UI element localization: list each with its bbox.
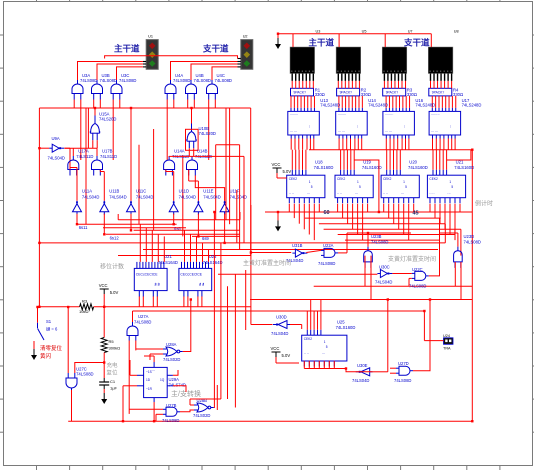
svg-text:···: ··· [322, 352, 325, 356]
svg-text:74LS20D: 74LS20D [99, 117, 116, 122]
svg-text:74LS04D: 74LS04D [203, 195, 220, 200]
svg-text:········: ········ [385, 113, 394, 117]
svg-text:1D: 1D [146, 378, 151, 382]
svg-text:74LS04D: 74LS04D [82, 195, 99, 200]
svg-text:·· ··: ·· ·· [383, 192, 388, 196]
svg-text:⋮: ⋮ [308, 124, 311, 128]
svg-text:74LS08D: 74LS08D [76, 372, 93, 377]
svg-text:1: 1 [449, 180, 451, 184]
svg-text:74LS08D: 74LS08D [194, 78, 211, 83]
svg-text:74LS08D: 74LS08D [80, 78, 97, 83]
svg-text:U11E: U11E [203, 189, 213, 194]
svg-text:74LS248D: 74LS248D [415, 103, 435, 108]
svg-text:支干道: 支干道 [202, 43, 229, 53]
svg-text:~1S: ~1S [146, 370, 152, 374]
svg-text:74LS160D: 74LS160D [454, 165, 474, 170]
svg-text:74LS08D: 74LS08D [371, 240, 388, 245]
svg-text:74LS02D: 74LS02D [163, 357, 180, 362]
svg-text:74LS248D: 74LS248D [368, 103, 388, 108]
svg-text:74LS04D: 74LS04D [352, 378, 369, 383]
svg-text:74LS164D: 74LS164D [203, 260, 223, 265]
svg-text:U20: U20 [409, 159, 417, 164]
svg-text:⋯: ⋯ [152, 368, 155, 372]
svg-text:6s11: 6s11 [79, 225, 88, 230]
svg-text:5: 5 [405, 185, 407, 189]
svg-text:330Ω: 330Ω [453, 92, 463, 97]
svg-text:74LS04D: 74LS04D [271, 331, 288, 336]
svg-text:1: 1 [357, 180, 359, 184]
svg-text:支黄灯准置支时间: 支黄灯准置支时间 [388, 255, 436, 263]
svg-text:5.0V: 5.0V [110, 290, 119, 295]
svg-text:74LS08D: 74LS08D [134, 320, 151, 325]
svg-text:········: ········ [431, 113, 440, 117]
svg-text:···: ··· [401, 192, 404, 196]
svg-text:10kΩ: 10kΩ [79, 309, 88, 314]
svg-text:74LS04D: 74LS04D [48, 156, 65, 161]
svg-text:U21: U21 [164, 254, 172, 259]
svg-text:6s12: 6s12 [110, 236, 120, 241]
svg-text:74LS08D: 74LS08D [162, 418, 179, 423]
svg-text:U17B: U17B [102, 149, 113, 154]
svg-text:充电: 充电 [107, 361, 119, 369]
svg-text:5.0V: 5.0V [283, 169, 292, 174]
svg-text:U28A: U28A [166, 342, 177, 347]
svg-text:R3: R3 [82, 299, 88, 304]
svg-text:U23B: U23B [371, 234, 382, 239]
svg-text:U1: U1 [148, 35, 153, 39]
svg-text:74LS08D: 74LS08D [215, 78, 232, 83]
svg-text:·· ··: ·· ·· [429, 192, 434, 196]
svg-text:1μF: 1μF [110, 386, 118, 391]
svg-text:CEK2: CEK2 [304, 337, 313, 341]
svg-text:U2: U2 [243, 35, 248, 39]
svg-text:主干道: 主干道 [309, 38, 335, 48]
svg-text:U27D: U27D [398, 361, 409, 366]
svg-text:R5: R5 [109, 339, 115, 344]
svg-text:TRA: TRA [443, 347, 451, 351]
svg-text:300kΩ: 300kΩ [109, 346, 121, 351]
svg-text:U30E: U30E [357, 363, 368, 368]
svg-text:U31B: U31B [292, 243, 303, 248]
svg-text:U8: U8 [454, 30, 459, 34]
svg-text:·· ··: ·· ·· [304, 352, 309, 356]
svg-text:U27A: U27A [138, 314, 149, 319]
svg-text:主干道: 主干道 [114, 43, 140, 53]
svg-text:U7: U7 [408, 30, 413, 34]
svg-text:VCC: VCC [271, 346, 280, 351]
svg-text:5.0V: 5.0V [282, 353, 291, 358]
svg-text:74LS08D: 74LS08D [394, 378, 411, 383]
svg-text:330Ω: 330Ω [407, 92, 417, 97]
svg-text:CEK2: CEK2 [289, 177, 298, 181]
svg-text:74LS20D: 74LS20D [199, 131, 216, 136]
svg-text:45: 45 [413, 211, 419, 217]
svg-text:5: 5 [451, 185, 453, 189]
svg-text:CEK2: CEK2 [429, 177, 438, 181]
svg-text:9PACK?: 9PACK? [386, 91, 399, 95]
svg-text:·· ··: ·· ·· [337, 192, 342, 196]
svg-text:黄闪: 黄闪 [40, 352, 52, 360]
svg-text:5: 5 [326, 345, 328, 349]
svg-text:U22A: U22A [323, 243, 334, 248]
svg-text:1: 1 [324, 340, 326, 344]
svg-text:VCC: VCC [99, 283, 108, 288]
svg-text:74LS04D: 74LS04D [136, 195, 153, 200]
svg-text:9PACK?: 9PACK? [340, 91, 353, 95]
svg-text:··· ···: ··· ··· [385, 130, 392, 134]
svg-text:330Ω: 330Ω [315, 92, 325, 97]
svg-text:········: ········ [290, 113, 299, 117]
svg-text:74LS160D: 74LS160D [314, 165, 334, 170]
svg-text:74LS74D: 74LS74D [169, 382, 186, 387]
svg-text:清零复位: 清零复位 [40, 344, 63, 352]
svg-text:74LS08D: 74LS08D [119, 78, 136, 83]
svg-text:S1: S1 [46, 319, 52, 324]
svg-text:U11B: U11B [109, 189, 119, 194]
svg-text:U14A: U14A [174, 149, 185, 154]
svg-text:U25: U25 [209, 254, 217, 259]
svg-text:········: ········ [338, 113, 347, 117]
svg-text:74LS08D: 74LS08D [173, 78, 190, 83]
svg-text:5: 5 [311, 185, 313, 189]
svg-text:C1: C1 [110, 379, 116, 384]
svg-text:U18: U18 [315, 159, 323, 164]
svg-text:U11A: U11A [82, 189, 92, 194]
svg-text:CEK2: CEK2 [337, 177, 346, 181]
svg-text:U9A: U9A [52, 136, 60, 141]
svg-text:··· ···: ··· ··· [290, 130, 297, 134]
svg-text:60: 60 [324, 210, 330, 216]
svg-text:74LS04D: 74LS04D [179, 195, 196, 200]
svg-text:U5: U5 [362, 30, 367, 34]
svg-text:1: 1 [403, 180, 405, 184]
svg-text:U25: U25 [337, 319, 345, 324]
svg-text:···: ··· [447, 192, 450, 196]
svg-text:9PACK?: 9PACK? [294, 91, 307, 95]
svg-text:74LS08D: 74LS08D [100, 78, 117, 83]
svg-text:9PACK?: 9PACK? [432, 91, 445, 95]
svg-text:74LS08D: 74LS08D [318, 261, 335, 266]
svg-text:移位计数: 移位计数 [100, 263, 124, 271]
svg-text:74LS160D: 74LS160D [408, 165, 428, 170]
svg-text:74LS08D: 74LS08D [409, 284, 426, 289]
svg-text:复位: 复位 [107, 369, 119, 377]
svg-text:CEK2: CEK2 [383, 177, 392, 181]
svg-text:U3: U3 [316, 30, 321, 34]
svg-text:⋮: ⋮ [403, 124, 406, 128]
svg-text:键 = 6: 键 = 6 [46, 326, 58, 333]
svg-text:CECcCECtCE: CECcCECtCE [136, 272, 158, 276]
svg-text:···: ··· [307, 192, 310, 196]
svg-text:~1R: ~1R [146, 387, 153, 391]
svg-text:··· ···: ··· ··· [431, 130, 438, 134]
svg-text:5: 5 [359, 185, 361, 189]
svg-text:U14B: U14B [197, 149, 208, 154]
svg-text:⋮: ⋮ [449, 124, 452, 128]
svg-text:倒计时: 倒计时 [475, 200, 493, 208]
svg-text:主黄灯准置主时间: 主黄灯准置主时间 [243, 259, 291, 267]
svg-text:74LS04D: 74LS04D [375, 280, 392, 285]
svg-text:74LS160D: 74LS160D [336, 325, 356, 330]
svg-text:·· ··: ·· ·· [289, 192, 294, 196]
svg-text:VCC: VCC [272, 162, 281, 167]
svg-text:U30C: U30C [379, 265, 390, 270]
svg-text:74LS04D: 74LS04D [109, 195, 126, 200]
svg-text:1: 1 [309, 180, 311, 184]
svg-text:74LS11D: 74LS11D [76, 154, 93, 159]
svg-text:支干道: 支干道 [403, 38, 430, 48]
svg-text:U30D: U30D [276, 315, 287, 320]
svg-text:U29A: U29A [169, 377, 180, 382]
svg-text:1Q: 1Q [160, 378, 165, 382]
svg-text:CECcCECtCE: CECcCECtCE [180, 272, 202, 276]
svg-text:U11C: U11C [136, 189, 146, 194]
svg-text:U17A: U17A [78, 149, 89, 154]
svg-text:⋮: ⋮ [356, 124, 359, 128]
svg-text:··· ···: ··· ··· [338, 130, 345, 134]
svg-text:U11F: U11F [230, 189, 240, 194]
svg-text:U11D: U11D [179, 189, 189, 194]
svg-text:74LS11D: 74LS11D [100, 154, 117, 159]
svg-text:∄ ∄: ∄ ∄ [154, 282, 159, 286]
svg-text:74LS02D: 74LS02D [193, 413, 210, 418]
svg-text:···: ··· [355, 192, 358, 196]
svg-text:74LS248D: 74LS248D [320, 103, 340, 108]
svg-text:74LS08D: 74LS08D [464, 240, 481, 245]
svg-text:∄ ∄: ∄ ∄ [199, 282, 204, 286]
svg-text:U23D: U23D [464, 234, 475, 239]
svg-text:74LS164D: 74LS164D [158, 260, 178, 265]
svg-text:74LS248D: 74LS248D [462, 103, 482, 108]
